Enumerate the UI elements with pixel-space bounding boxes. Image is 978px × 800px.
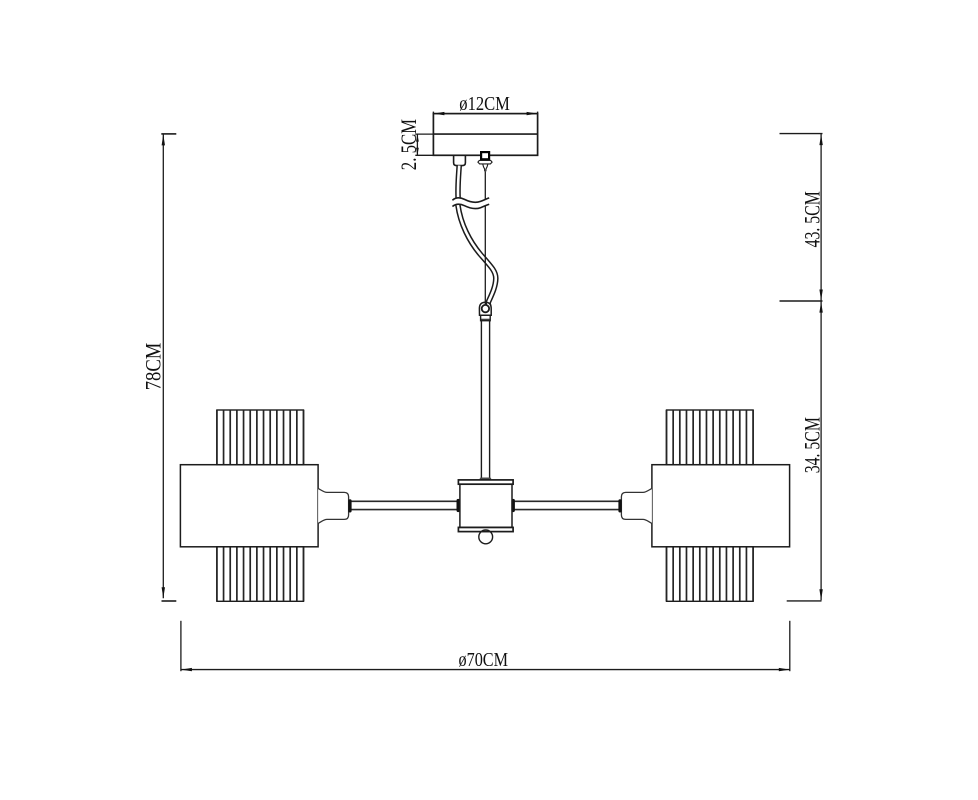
central rod <box>481 321 489 479</box>
right lamp socket <box>618 488 652 523</box>
canopy ceiling plate <box>433 112 537 156</box>
cable grip connector <box>479 302 491 320</box>
svg-text:34. 5CM: 34. 5CM <box>800 417 825 473</box>
left shade top ribbed section <box>217 410 304 465</box>
dimension 78CM (overall height) <box>140 134 176 601</box>
dimension 43.5CM (upper height) <box>780 134 825 301</box>
dimension 12CM (canopy diameter) <box>433 93 537 115</box>
right arm <box>514 501 620 509</box>
right shade top ribbed section <box>667 410 754 465</box>
hub top flange <box>458 480 513 484</box>
svg-text:78CM: 78CM <box>140 343 165 391</box>
svg-text:43. 5CM: 43. 5CM <box>800 191 825 247</box>
right shade bottom ribbed section <box>667 547 754 602</box>
cable gland <box>454 155 466 165</box>
hub knob finial <box>479 530 493 544</box>
right shade body <box>652 465 790 547</box>
power cord lower segment <box>458 205 496 307</box>
left shade bottom ribbed section <box>217 547 304 602</box>
hub left tab <box>457 499 461 512</box>
left arm <box>352 501 458 509</box>
steel suspension cable <box>484 171 486 305</box>
power cord upper segment <box>458 166 459 200</box>
dimension 2.5CM (canopy height) <box>396 119 433 170</box>
left shade body <box>180 465 318 547</box>
hub bottom flange <box>458 527 513 531</box>
svg-text:ø12CM: ø12CM <box>459 93 510 115</box>
hub right tab <box>511 499 515 512</box>
cable adjuster nut <box>478 152 492 171</box>
break mark <box>452 198 489 209</box>
rod collar at hub <box>480 478 492 481</box>
svg-text:2. 5CM: 2. 5CM <box>396 119 421 170</box>
dimension 70CM (overall diameter) <box>181 621 790 672</box>
svg-text:ø70CM: ø70CM <box>459 649 509 671</box>
left lamp socket <box>318 488 351 523</box>
hub body <box>460 484 512 527</box>
dimension 34.5CM (lower height) <box>787 302 825 601</box>
